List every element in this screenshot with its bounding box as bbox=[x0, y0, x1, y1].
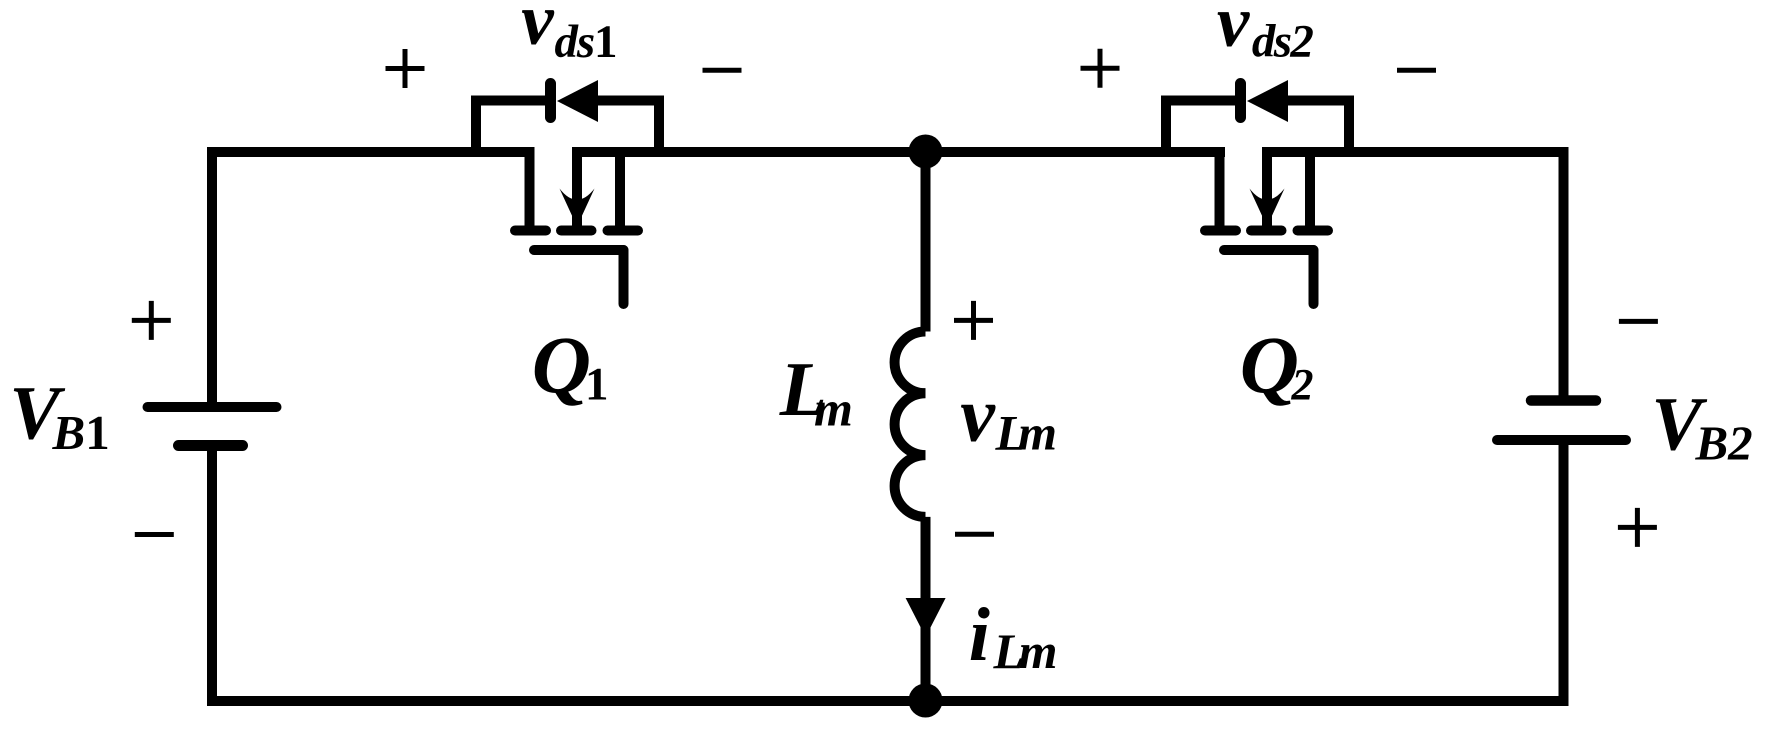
svg-text:v: v bbox=[521, 0, 555, 60]
svg-text:Lm: Lm bbox=[993, 623, 1058, 679]
svg-text:ds2: ds2 bbox=[1252, 16, 1314, 68]
svg-text:ds1: ds1 bbox=[555, 16, 618, 68]
svg-text:i: i bbox=[969, 593, 990, 677]
svg-text:B1: B1 bbox=[52, 405, 110, 460]
svg-text:1: 1 bbox=[585, 359, 609, 411]
svg-text:m: m bbox=[814, 381, 853, 437]
svg-text:Q: Q bbox=[532, 319, 591, 410]
svg-text:v: v bbox=[960, 371, 996, 458]
svg-text:v: v bbox=[1217, 0, 1251, 62]
svg-text:2: 2 bbox=[1291, 360, 1314, 409]
svg-text:Lm: Lm bbox=[995, 405, 1058, 461]
svg-text:B2: B2 bbox=[1695, 416, 1753, 471]
svg-text:Q: Q bbox=[1240, 319, 1299, 410]
